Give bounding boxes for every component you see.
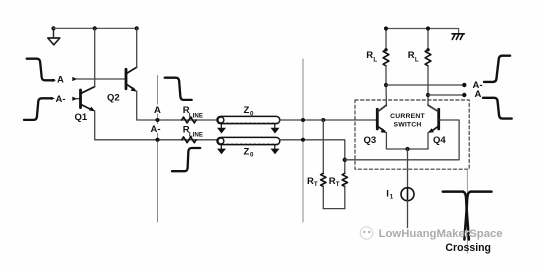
svg-text:Q4: Q4 — [433, 135, 446, 146]
wire: Q2 collector to rail — [136, 28, 138, 67]
waveform on A line (falling edge) — [165, 78, 192, 100]
waveform A input (falling edge) — [27, 59, 54, 81]
node: ground junction dot — [51, 26, 55, 30]
crossing waveform — [443, 192, 492, 240]
svg-text:Z: Z — [244, 105, 250, 116]
node: A- output end dot — [462, 83, 466, 87]
svg-text:A: A — [57, 75, 64, 86]
wire: A output — [428, 94, 464, 96]
wire: Q4 emitter down — [427, 133, 429, 150]
resistor RLINE (A line) — [182, 117, 196, 123]
node: Q2 emitter arrowhead — [131, 87, 137, 92]
node A bus label — [153, 105, 162, 114]
current switch dashed box U1 — [355, 100, 469, 169]
wire: RT bottom link — [323, 208, 345, 210]
node: A bus junction — [156, 118, 160, 122]
node: arrow at waveform A- end — [51, 97, 55, 100]
resistor RLINE2 (A- line) — [182, 137, 196, 143]
svg-text:Z: Z — [244, 146, 250, 157]
transmission line Z0 (A) — [217, 116, 280, 123]
node: arrow at waveform A end — [52, 79, 56, 82]
svg-text:Q3: Q3 — [364, 135, 377, 146]
wire: RL1 to Q3 collector — [378, 85, 386, 111]
waveform A- output (rising edge) — [484, 56, 510, 82]
node: A output end dot — [462, 93, 466, 97]
node: emitter junction — [405, 147, 409, 151]
svg-text:CURRENT: CURRENT — [390, 113, 425, 120]
wire: Q4 base return — [345, 120, 459, 160]
node A- bus label — [151, 124, 163, 133]
transistor Q2 — [126, 67, 137, 89]
node: Q4 emitter arrowhead — [428, 128, 434, 133]
svg-text:A: A — [154, 105, 161, 116]
resistor RT1 — [321, 120, 326, 209]
wire: Q1 emitter to A- net — [95, 111, 218, 140]
svg-text:I: I — [386, 188, 389, 199]
svg-text:R: R — [366, 50, 373, 61]
ground arrow: Z0 right shield — [271, 124, 280, 134]
wire: right top rail — [386, 28, 459, 30]
ground arrow: Z0- left shield — [217, 145, 226, 155]
ground — [48, 28, 60, 44]
svg-text:Q2: Q2 — [107, 93, 120, 104]
node: RL2 top dot — [426, 48, 429, 51]
svg-text:A: A — [475, 89, 482, 100]
watermark logo — [360, 227, 372, 239]
node: RL1 rail junction — [384, 26, 388, 30]
svg-text:1: 1 — [390, 193, 394, 200]
node: arrow into Q1 base — [72, 97, 77, 101]
svg-text:T: T — [336, 181, 340, 188]
wire: Q1 collector to rail — [94, 28, 96, 86]
node: Q1 collector junction — [93, 26, 97, 30]
wire: Q2 emitter to A net — [137, 91, 218, 120]
wire: A net from Z0 to Q3 base — [280, 119, 376, 121]
waveform A output (falling edge) — [483, 98, 512, 119]
node: RL1 top dot — [384, 48, 387, 51]
svg-text:0: 0 — [250, 111, 254, 118]
svg-text:L: L — [415, 57, 419, 64]
node: A- bus junction — [156, 138, 160, 142]
svg-text:R: R — [408, 50, 415, 61]
node: Q1 emitter arrowhead — [89, 107, 95, 112]
wire: A- net from Z0 to RT junction — [280, 140, 345, 160]
node: RL2 rail junction — [426, 26, 430, 30]
node: arrow into Q2 base — [72, 77, 77, 81]
transistor Q4 — [428, 105, 439, 131]
resistor RL1 — [383, 29, 389, 86]
waveform A- input (rising edge) — [24, 98, 52, 120]
wire: left vertical bus — [157, 76, 159, 223]
transistor Q1 — [81, 87, 95, 111]
transmission line Z0 (A-) — [217, 137, 280, 144]
wire: RL2 to Q4 collector — [428, 95, 438, 111]
wire: annotation leader from box corner — [466, 169, 468, 253]
waveform on A- line (rising edge) — [172, 148, 200, 171]
node: A output junction at RL2 — [426, 93, 430, 97]
svg-text:L: L — [373, 57, 377, 64]
wire: A- base wire to Q1 — [76, 98, 79, 100]
transistor Q3 — [377, 105, 386, 131]
node: Q2 collector junction — [135, 26, 139, 30]
node: Q3 emitter arrowhead — [381, 128, 387, 133]
ground arrow: Z0 left shield — [217, 124, 226, 134]
wire: middle vertical bus — [302, 59, 304, 222]
wire: A- output — [386, 84, 464, 86]
node: A mid junction — [301, 118, 305, 122]
node: A- mid junction — [301, 138, 305, 142]
svg-text:LowHuangMakerSpace: LowHuangMakerSpace — [379, 228, 503, 240]
svg-text:0: 0 — [250, 152, 254, 159]
wire: Q3 emitter down — [386, 133, 428, 150]
svg-text:T: T — [314, 181, 318, 188]
resistor RL2 — [425, 29, 431, 96]
svg-text:Q1: Q1 — [75, 112, 88, 123]
resistor RT2 — [342, 160, 347, 209]
ground arrow: Z0- right shield — [271, 145, 280, 155]
node: RT2 / Q4 base junction — [343, 158, 347, 162]
current source I1 — [401, 149, 414, 228]
node: A- output junction at RL1 — [384, 83, 388, 87]
chassis ground — [452, 29, 464, 40]
svg-text:SWITCH: SWITCH — [393, 121, 421, 128]
svg-text:A-: A- — [151, 124, 161, 135]
node: RT1 top junction — [321, 118, 325, 122]
wire: left top rail — [54, 27, 137, 29]
svg-text:Crossing: Crossing — [445, 242, 491, 254]
svg-text:A-: A- — [56, 94, 66, 105]
wire: A base wire to Q2 — [76, 78, 125, 80]
